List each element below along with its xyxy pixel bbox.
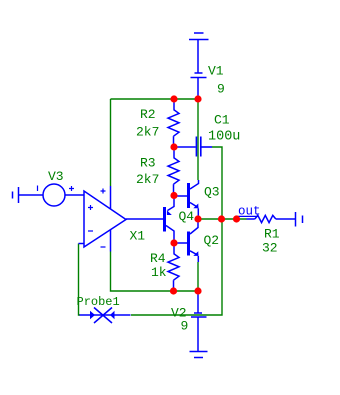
wire right feedback rail	[131, 147, 222, 315]
svg-text:V1: V1	[208, 63, 224, 78]
svg-text:32: 32	[262, 240, 278, 255]
junction Q4 collector/Q2 base/R4 node	[170, 239, 177, 246]
wire Q2 emitter to bottom rail	[197, 262, 199, 288]
net label out underline	[238, 215, 259, 217]
wire op-amp negative supply and bottom rail	[111, 252, 199, 292]
transistor Q2	[178, 223, 199, 263]
probe Probe1	[80, 308, 131, 324]
svg-text:V3: V3	[48, 169, 64, 184]
wire op-amp positive supply drop	[110, 99, 112, 186]
svg-text:9: 9	[181, 318, 189, 333]
svg-text:2k7: 2k7	[136, 124, 159, 139]
wire feedback to inverting input	[79, 244, 81, 316]
svg-text:Q4: Q4	[179, 209, 195, 224]
resistor R1	[247, 215, 296, 222]
svg-text:100u: 100u	[208, 130, 240, 145]
battery V2 with bottom ground	[190, 295, 208, 358]
svg-text:9: 9	[217, 81, 225, 96]
capacitor C1	[178, 137, 213, 157]
svg-text:R4: R4	[150, 251, 166, 266]
svg-text:R1: R1	[264, 226, 280, 241]
wire out row	[198, 218, 247, 220]
junction R2/R3/C1 node	[170, 143, 177, 150]
resistor R3	[168, 151, 179, 193]
svg-text:out: out	[238, 205, 261, 219]
svg-text:Q3: Q3	[204, 185, 220, 200]
svg-text:R2: R2	[140, 107, 156, 122]
junction node out at feedback rail	[218, 215, 225, 222]
ground right	[296, 212, 303, 227]
svg-text:Probe1: Probe1	[77, 295, 120, 309]
junction node out at Q3/Q2 emitters	[194, 215, 201, 222]
svg-text:C1: C1	[214, 113, 230, 128]
junction R3/Q3 base/Q4 emitter node	[170, 192, 177, 199]
junction V1 at V+ rail	[194, 95, 201, 102]
transistor Q4	[165, 199, 175, 240]
junction R4 bottom at V- rail	[170, 287, 177, 294]
svg-text:2k7: 2k7	[136, 172, 159, 187]
junction R2 top at V+ rail	[170, 95, 177, 102]
battery V1 with top ground	[189, 33, 209, 96]
wire V+ column to Q3 collector	[197, 103, 199, 181]
source V3	[38, 184, 85, 206]
svg-text:R3: R3	[140, 156, 156, 171]
junction node out at R1	[233, 215, 240, 222]
junction V2 at V- rail	[194, 287, 201, 294]
op-amp X1	[79, 186, 164, 252]
ground left	[13, 187, 44, 203]
wire top rail	[111, 98, 199, 100]
transistor Q3	[178, 180, 199, 216]
svg-text:X1: X1	[130, 229, 146, 244]
svg-text:1k: 1k	[151, 265, 167, 280]
resistor R4	[168, 247, 179, 288]
resistor R2	[168, 103, 179, 144]
svg-text:Q2: Q2	[204, 233, 220, 248]
